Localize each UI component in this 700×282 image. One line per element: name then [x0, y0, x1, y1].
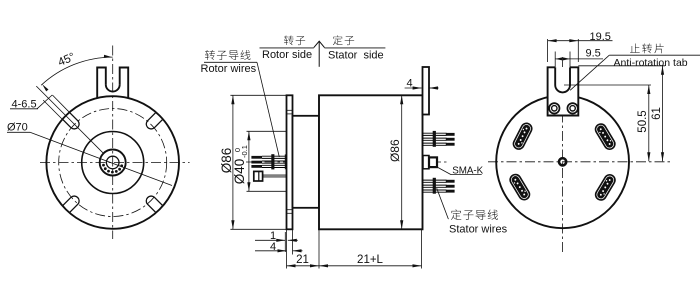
middle view: rotor wires (3) with stubs — [251, 156, 262, 159]
svg-text:50.5: 50.5 — [637, 110, 649, 132]
left view: centerline vertical — [112, 46, 114, 240]
right view: tab screws — [549, 103, 559, 113]
svg-text:Ø86: Ø86 — [388, 139, 402, 162]
left view: outer circle Ø86 flange — [46, 96, 179, 229]
left view: 45 degree dimension arc — [41, 57, 113, 85]
middle view: Ø40 dimension — [247, 130, 287, 132]
left view: 45 deg slot axis reference line — [36, 86, 103, 153]
left view: hub bore circle — [106, 156, 119, 169]
left view: inner circle — [82, 132, 144, 194]
left view: bolt circle Ø70 (dash-dot) — [59, 109, 167, 217]
right view: horizontal centerline — [488, 161, 672, 163]
middle view: rotor coax connector — [254, 171, 263, 181]
middle view: stator wires top bundle — [422, 132, 446, 134]
right view: anti-rotation tab plate — [548, 67, 579, 115]
left view: fork U-slot bottom arc — [106, 85, 120, 92]
left view: mounting slot 6.5 (BR) — [146, 196, 163, 213]
svg-text:Rotor wires: Rotor wires — [201, 63, 257, 75]
left view: mounting slot 6.5 (TL) — [63, 112, 80, 129]
right view: 50.5 dimension — [564, 84, 651, 86]
svg-text:-0.1: -0.1 — [240, 145, 249, 158]
left view: anti-rotation fork prongs (seen through) — [97, 68, 106, 99]
svg-text:SMA-K: SMA-K — [452, 165, 483, 176]
right view: 9.5 dimension — [554, 52, 556, 68]
middle view: stator wires label — [437, 188, 449, 219]
middle view: bottom dimensions 1 and 4 — [284, 232, 286, 252]
right view: anti-rotation tab label — [630, 44, 640, 53]
svg-text:19.5: 19.5 — [590, 31, 611, 43]
right view: 19.5 dimension — [547, 39, 549, 62]
middle view: SMA-K connector — [423, 156, 429, 169]
left view: mounting slot 6.5 (TR) — [146, 112, 163, 129]
svg-text:45°: 45° — [56, 51, 77, 69]
right view: connector slot lower-left — [507, 171, 532, 202]
svg-text:21: 21 — [296, 254, 309, 266]
svg-text:61: 61 — [651, 107, 663, 120]
left view: slot side extension to 4-6.5 label — [52, 95, 69, 112]
middle view: divider arrow — [314, 41, 325, 47]
left view: slot lower side extension line — [43, 100, 62, 119]
right view: tab U-slot — [554, 67, 556, 85]
left view: 4-6.5 leader kink — [37, 95, 52, 109]
left view: hub outer circle — [100, 150, 126, 176]
middle view: flange inner ticks — [287, 109, 293, 111]
middle view: stator body — [319, 95, 423, 229]
svg-text:21+L: 21+L — [357, 254, 384, 266]
right view: stator circle Ø86 — [496, 95, 629, 228]
left view: centerline horizontal — [40, 162, 190, 164]
svg-text:Anti-rotation tab: Anti-rotation tab — [614, 57, 688, 69]
middle view: dimension 21 — [318, 229, 320, 268]
middle view: rotor hub — [293, 116, 320, 208]
svg-text:Stator side: Stator side — [328, 50, 384, 62]
middle view: left Ø86 dimension — [230, 94, 286, 96]
right view: connector slot upper-right — [592, 121, 617, 152]
svg-text:Rotor side: Rotor side — [262, 49, 312, 61]
middle view: rotor wires label (Chinese) — [205, 50, 215, 60]
right view: vertical centerline — [562, 57, 564, 252]
right view: center pin — [559, 158, 566, 165]
svg-text:9.5: 9.5 — [586, 47, 601, 59]
right view: connector slot lower-right — [593, 172, 618, 203]
middle view: body Ø86 dimension — [401, 95, 403, 229]
middle view: horizontal centerline — [246, 161, 448, 163]
middle view: rotor wire tie at flange — [284, 154, 286, 169]
middle view: rotor wire clamp — [271, 154, 274, 169]
left view: bearing ball dots — [102, 164, 105, 167]
svg-text:Stator wires: Stator wires — [449, 224, 508, 236]
svg-text:Ø70: Ø70 — [7, 122, 28, 134]
middle view: rotor/stator divider labels — [284, 35, 294, 45]
svg-text:Ø40: Ø40 — [232, 159, 247, 185]
left view: mounting slot 6.5 (BL) — [63, 196, 80, 213]
middle view: rotor flange plate — [287, 95, 293, 229]
middle view: dimension 21+L — [421, 229, 423, 268]
right view: 61 dimension — [578, 65, 665, 67]
middle view: stator wires bottom bundle — [422, 179, 446, 181]
middle view: anti-rotation tab plate (side) — [423, 67, 430, 115]
middle view: SMA-K label — [437, 167, 451, 175]
right view: connector slot upper-left — [511, 120, 535, 152]
